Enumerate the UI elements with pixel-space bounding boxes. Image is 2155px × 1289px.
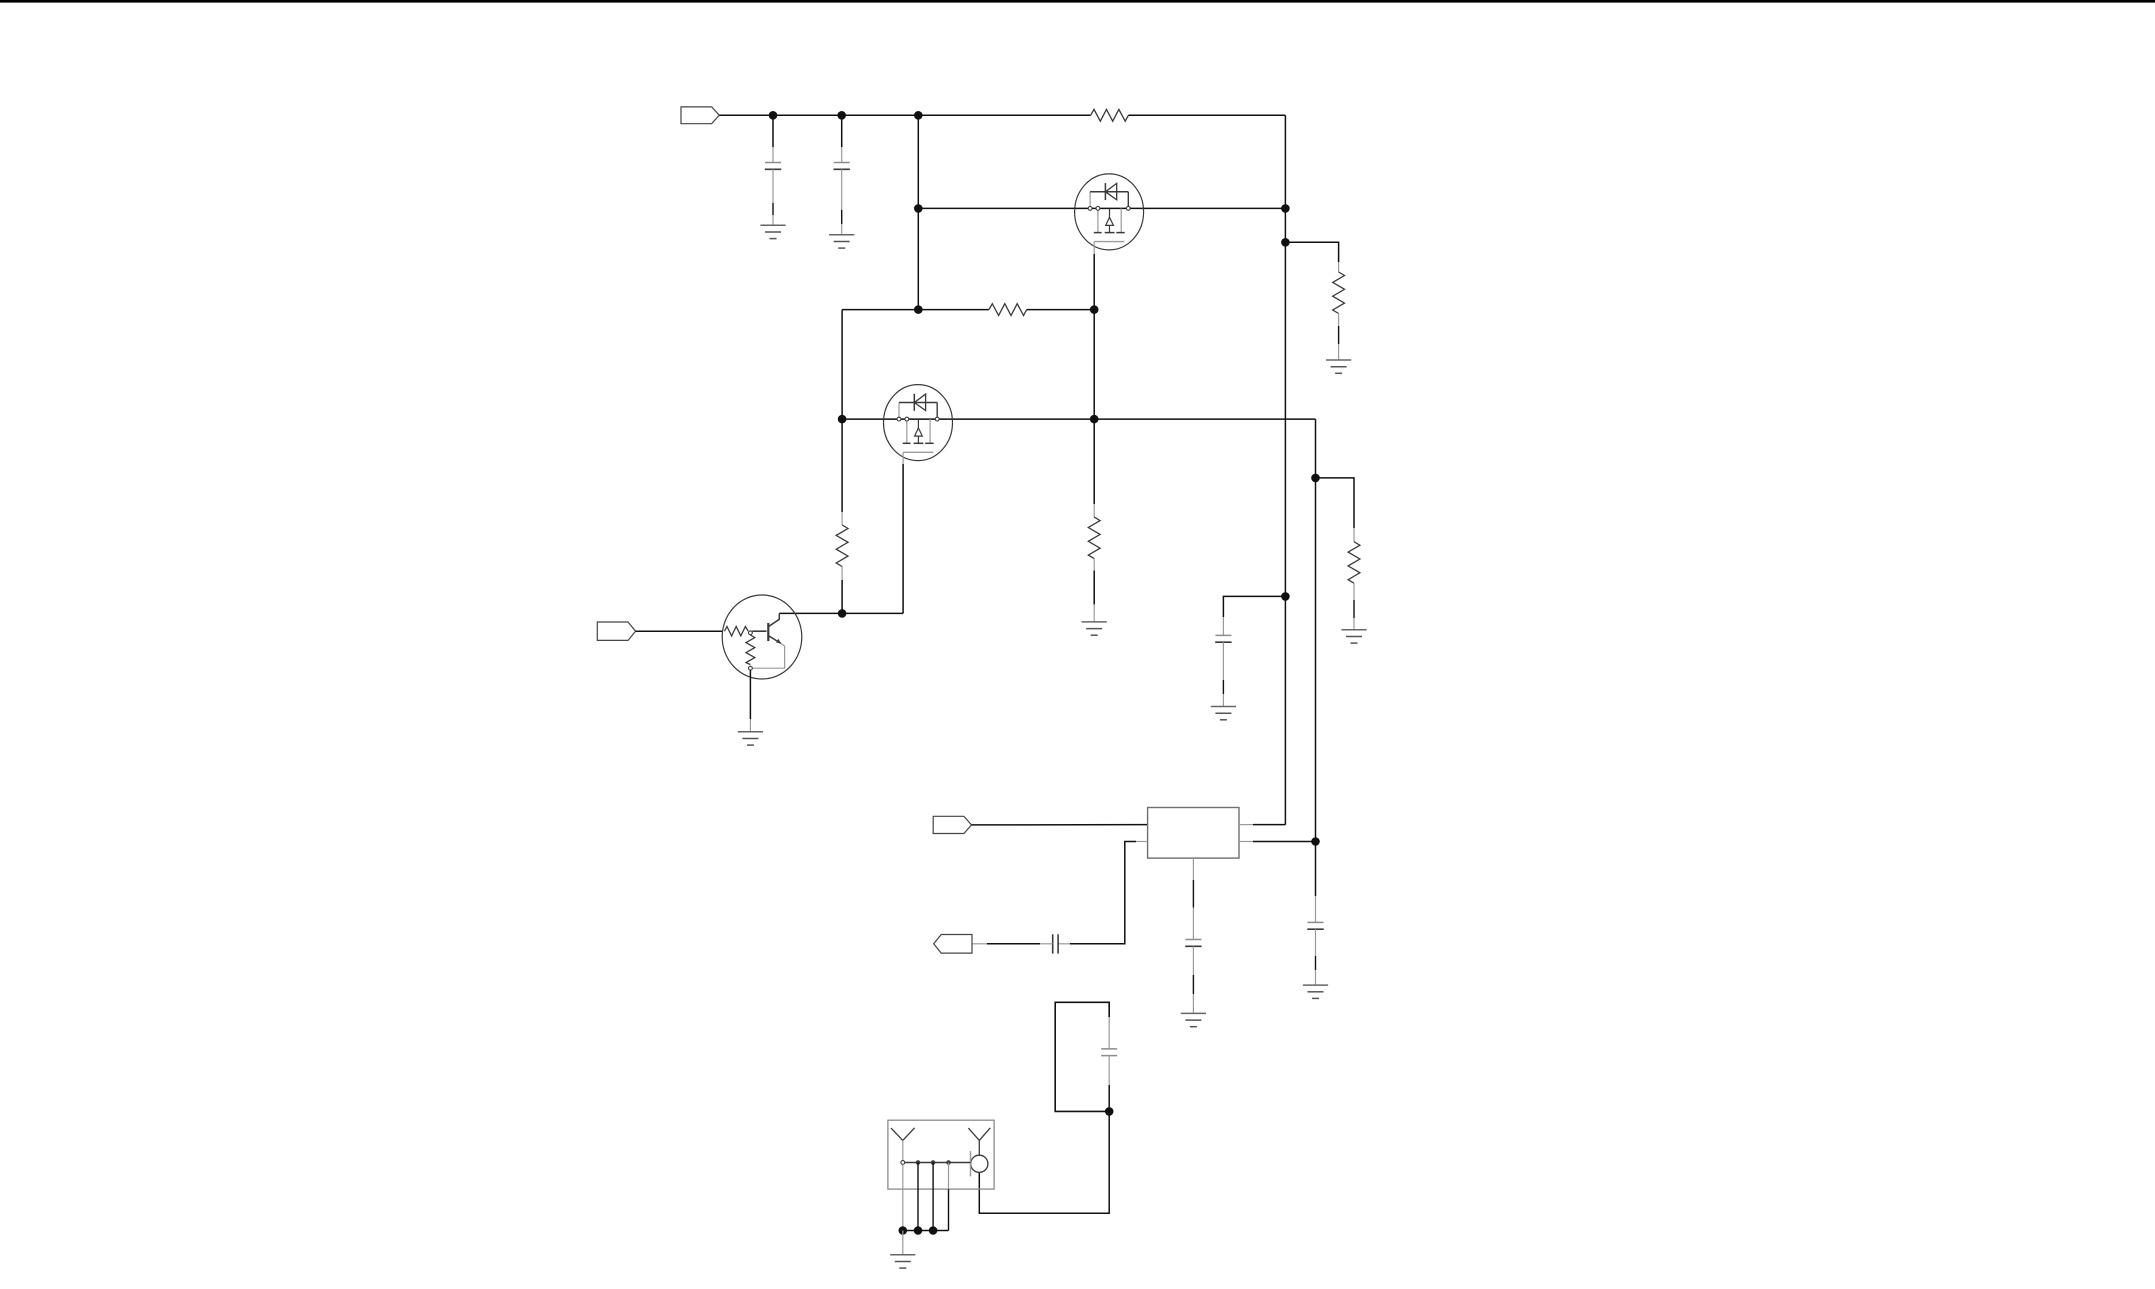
node <box>1311 837 1320 846</box>
wire <box>841 310 843 420</box>
wire <box>902 1164 904 1230</box>
ground <box>1082 621 1107 623</box>
wire <box>972 824 1148 826</box>
node <box>1105 1107 1114 1116</box>
port P2 <box>597 622 635 640</box>
node <box>1281 592 1290 601</box>
ground <box>1326 359 1351 361</box>
node <box>1311 474 1320 483</box>
node <box>899 1226 908 1235</box>
resistor R5 <box>1353 528 1355 542</box>
resistor R6 <box>1093 419 1095 504</box>
capacitor C1 <box>772 115 774 147</box>
transistor Q1 P-MOSFET <box>1075 174 1144 250</box>
wire <box>1284 115 1286 824</box>
capacitor C5 <box>1058 943 1070 945</box>
ground <box>829 234 854 236</box>
node <box>1281 238 1290 247</box>
node <box>914 305 923 314</box>
wire <box>719 114 1090 116</box>
wire <box>979 1111 1109 1213</box>
wire <box>1093 310 1095 420</box>
ground <box>1341 629 1366 631</box>
wire <box>842 418 1315 420</box>
transistor Q3 pre-biased NPN <box>722 595 802 679</box>
wire <box>842 309 989 311</box>
wire <box>932 1163 934 1231</box>
wire <box>1223 596 1285 617</box>
ground <box>738 731 763 733</box>
wire <box>948 1163 950 1190</box>
wire <box>902 452 904 464</box>
antenna ANT2 <box>968 1128 979 1140</box>
node <box>1090 415 1099 424</box>
element B1 loop <box>1055 1002 1109 1111</box>
wire <box>1136 841 1148 843</box>
ground <box>1211 706 1236 708</box>
transistor Q2 P-MOSFET <box>884 385 953 461</box>
capacitor C7 <box>1108 1017 1110 1049</box>
resistor R1 <box>1091 109 1129 121</box>
ground <box>1303 984 1328 986</box>
capacitor C2 <box>841 115 843 147</box>
node <box>914 204 923 213</box>
port P3 <box>933 816 971 833</box>
resistor R4 <box>1338 262 1340 272</box>
port P4 <box>934 935 972 954</box>
IC U1 <box>1148 808 1239 859</box>
resistor R2 <box>989 304 1027 316</box>
capacitor C4 <box>1192 858 1194 880</box>
wire <box>1239 841 1253 843</box>
wire <box>749 670 751 719</box>
wire <box>917 1163 919 1231</box>
module U2 <box>888 1120 994 1189</box>
ground <box>1181 1012 1206 1014</box>
wire <box>779 612 903 614</box>
resistor R3 <box>841 419 843 512</box>
wire <box>918 207 1285 209</box>
wire <box>917 115 919 309</box>
capacitor C6 <box>1315 842 1317 897</box>
wire <box>1027 309 1095 311</box>
wire <box>1315 419 1317 841</box>
node <box>769 111 778 120</box>
wire <box>1316 478 1355 528</box>
wire <box>1285 242 1338 262</box>
wire <box>1128 114 1285 116</box>
wire <box>902 1231 904 1255</box>
RF port <box>971 1155 988 1172</box>
wire <box>1093 242 1095 254</box>
node <box>838 609 847 618</box>
antenna ANT1 <box>891 1128 903 1140</box>
ground <box>890 1254 915 1256</box>
ground <box>760 224 785 226</box>
node <box>916 1160 921 1165</box>
capacitor C3 <box>1222 617 1224 635</box>
wire <box>1239 824 1253 826</box>
port P1 <box>681 107 719 124</box>
wire <box>905 1162 971 1164</box>
wire <box>903 1230 949 1232</box>
node <box>838 415 847 424</box>
wire <box>636 630 723 632</box>
wire <box>987 943 1040 945</box>
